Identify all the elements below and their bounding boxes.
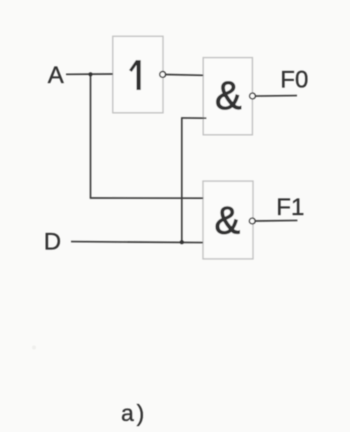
inverter U1 label 1 — [130, 60, 138, 90]
wire: A branch vertical down — [90, 74, 92, 198]
inverter U1 output bubble — [160, 72, 166, 78]
node: junction on D wire — [180, 240, 184, 244]
NAND U2 output bubble — [250, 93, 256, 99]
node: junction on A wire — [88, 72, 92, 76]
svg-text:F1: F1 — [276, 194, 304, 221]
wire: input D horizontal to U3 lower input — [71, 242, 203, 243]
wire: D branch vertical up — [181, 118, 183, 242]
wire: A branch horizontal to U3 upper input — [90, 197, 203, 199]
svg-text:&: & — [215, 74, 242, 118]
NAND gate U2 box — [203, 58, 252, 135]
wire: D branch horizontal to U2 lower input — [181, 117, 206, 119]
NAND gate U3 box — [203, 181, 253, 259]
svg-text:D: D — [44, 229, 61, 256]
svg-text:&: & — [214, 199, 240, 242]
faint scan speck — [32, 346, 36, 350]
svg-text:F0: F0 — [280, 66, 308, 93]
wire: U3 output F1 — [255, 219, 297, 222]
inverter U1 box — [113, 36, 163, 113]
wire: U2 output F0 — [255, 95, 297, 98]
wire: inverter output to U2 upper input — [165, 74, 203, 77]
svg-text:A: A — [48, 62, 64, 89]
wire: input A horizontal to inverter — [66, 73, 113, 75]
svg-text:a): a) — [121, 400, 147, 426]
NAND U3 output bubble — [249, 218, 255, 224]
